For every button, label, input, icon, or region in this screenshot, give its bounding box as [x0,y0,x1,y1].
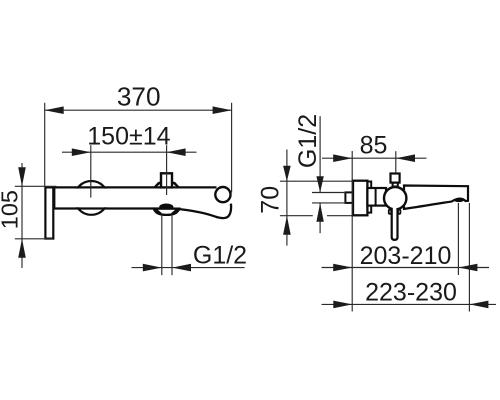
svg-text:85: 85 [360,131,388,159]
svg-text:105: 105 [0,190,23,229]
svg-text:203-210: 203-210 [360,242,452,270]
svg-text:G1/2: G1/2 [193,242,247,270]
svg-text:223-230: 223-230 [365,278,457,306]
svg-text:70: 70 [256,186,284,214]
svg-text:150±14: 150±14 [87,123,170,151]
svg-text:G1/2: G1/2 [294,114,322,168]
svg-text:370: 370 [117,82,161,112]
